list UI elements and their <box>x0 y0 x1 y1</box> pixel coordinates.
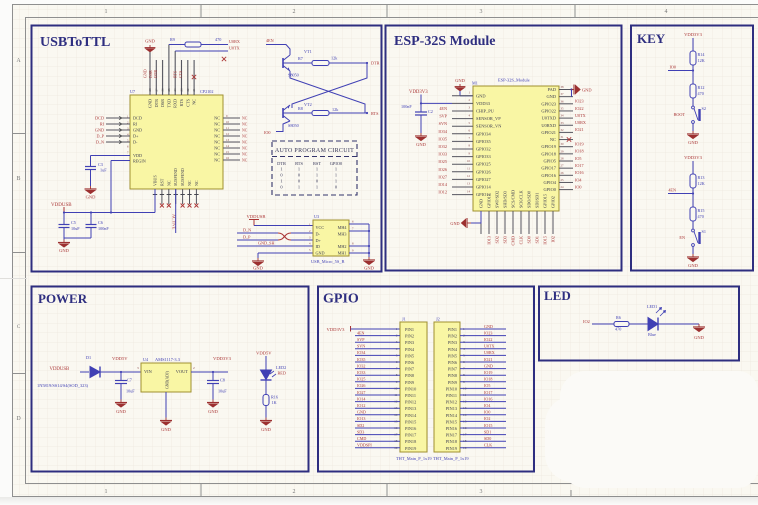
svg-text:1: 1 <box>280 167 282 172</box>
svg-text:IO0: IO0 <box>264 130 271 135</box>
svg-text:1: 1 <box>316 173 318 178</box>
svg-text:IO15: IO15 <box>543 236 548 245</box>
J2 right net labels <box>484 324 495 448</box>
wire R16 to gnd <box>265 406 267 418</box>
svg-text:U3: U3 <box>314 214 319 219</box>
block border LED <box>539 287 739 361</box>
svg-text:IO33: IO33 <box>357 370 365 375</box>
svg-text:RED: RED <box>278 371 286 376</box>
svg-text:VDD: VDD <box>133 153 142 158</box>
svg-text:NC: NC <box>242 141 248 145</box>
svg-text:GPIO2: GPIO2 <box>551 196 556 208</box>
svg-text:GND: GND <box>143 69 148 78</box>
svg-text:IO19: IO19 <box>575 142 584 147</box>
svg-text:IO26: IO26 <box>357 383 365 388</box>
no-connect X on CTS stub <box>192 75 196 79</box>
transistor VT1 <box>283 55 290 71</box>
wire C6 top <box>90 213 92 225</box>
svg-text:CLK: CLK <box>519 236 524 244</box>
svg-text:PIN4: PIN4 <box>448 347 458 352</box>
svg-text:GPIO18: GPIO18 <box>541 151 556 156</box>
svg-text:SCS/CMD: SCS/CMD <box>511 190 516 208</box>
svg-text:IO22: IO22 <box>575 106 584 111</box>
svg-text:GPIO0: GPIO0 <box>544 187 557 192</box>
svg-text:11: 11 <box>467 167 470 171</box>
svg-text:SDI/SD1: SDI/SD1 <box>535 193 540 208</box>
svg-text:1: 1 <box>335 178 337 183</box>
svg-text:IO35: IO35 <box>357 357 365 362</box>
wire vdd to R14 <box>692 38 694 51</box>
wire VDD to C3 <box>91 155 131 157</box>
CP2102 bottom pin stubs <box>155 189 196 204</box>
svg-text:12: 12 <box>463 400 467 404</box>
svg-text:470: 470 <box>215 37 221 42</box>
wire suspend down <box>175 189 177 233</box>
svg-text:THT_Main_P_1x19: THT_Main_P_1x19 <box>396 456 432 461</box>
svg-text:PIN16: PIN16 <box>446 426 458 431</box>
svg-text:C7: C7 <box>127 378 132 383</box>
connector J1 body <box>400 322 427 452</box>
svg-text:PIN18: PIN18 <box>446 439 457 444</box>
CP2102 top pin stubs <box>150 45 194 96</box>
svg-text:ESP-32S_Module: ESP-32S_Module <box>498 78 530 83</box>
svg-text:3: 3 <box>480 489 483 495</box>
svg-text:SENSOR_VP: SENSOR_VP <box>476 116 501 121</box>
svg-text:NC: NC <box>242 159 248 163</box>
svg-text:NC: NC <box>214 158 220 163</box>
svg-text:VDD3V3: VDD3V3 <box>409 90 428 95</box>
svg-text:PIN18: PIN18 <box>405 439 416 444</box>
svg-text:38: 38 <box>561 85 565 89</box>
svg-text:IO4: IO4 <box>575 177 582 182</box>
svg-text:DTR: DTR <box>154 99 159 108</box>
wire switch to ground S1 <box>692 246 694 254</box>
svg-text:1: 1 <box>105 489 108 495</box>
wire R13 to node <box>692 188 694 207</box>
svg-text:13: 13 <box>226 138 230 142</box>
svg-text:GND: GND <box>133 128 142 133</box>
wire R9 to U0RX <box>201 44 228 46</box>
bottom band tick 1 <box>200 484 202 496</box>
svg-text:RST: RST <box>313 161 321 166</box>
svg-text:11: 11 <box>463 393 467 397</box>
svg-text:IO0: IO0 <box>484 410 490 415</box>
wire gnd to pin1 <box>459 91 461 96</box>
svg-text:S8050: S8050 <box>288 123 299 128</box>
svg-text:D+: D+ <box>133 134 139 139</box>
wire REGIN to rail <box>111 160 130 162</box>
svg-text:14: 14 <box>226 144 230 148</box>
svg-text:IO14: IO14 <box>438 182 448 187</box>
svg-text:AMS1117-3.3: AMS1117-3.3 <box>155 357 181 362</box>
svg-text:RTS: RTS <box>179 98 184 106</box>
svg-text:D1: D1 <box>86 355 91 360</box>
svg-text:GPIO22: GPIO22 <box>541 108 556 113</box>
svg-text:10uF: 10uF <box>218 389 227 394</box>
svg-text:37: 37 <box>561 92 565 96</box>
svg-text:6: 6 <box>463 360 465 364</box>
svg-text:16: 16 <box>226 156 230 160</box>
white blob bottom right <box>545 371 758 488</box>
svg-text:D-: D- <box>133 140 138 145</box>
svg-text:M1: M1 <box>472 81 478 86</box>
svg-text:R8: R8 <box>298 106 303 111</box>
wire IO0 to VT2 emitter <box>276 121 290 132</box>
table rows <box>280 167 338 190</box>
svg-text:12K: 12K <box>698 58 705 63</box>
svg-text:25: 25 <box>561 178 565 182</box>
svg-text:1: 1 <box>396 327 398 331</box>
svg-text:PIN8: PIN8 <box>448 373 457 378</box>
svg-text:GND: GND <box>484 363 493 368</box>
svg-text:IO34: IO34 <box>357 350 365 355</box>
svg-text:SVN: SVN <box>357 344 365 349</box>
U3 right wires <box>349 223 369 225</box>
svg-text:DCD: DCD <box>133 116 142 121</box>
svg-text:30: 30 <box>561 142 565 146</box>
svg-text:10: 10 <box>463 386 467 390</box>
svg-text:A: A <box>16 58 21 64</box>
svg-text:24: 24 <box>561 185 565 189</box>
svg-text:11: 11 <box>394 393 398 397</box>
svg-text:PIN4: PIN4 <box>405 347 415 352</box>
svg-text:29: 29 <box>561 149 565 153</box>
switch S2 <box>692 106 700 123</box>
svg-text:PIN1: PIN1 <box>448 327 457 332</box>
U3 right junction dots <box>368 230 370 232</box>
wire LED2 to R16 <box>265 380 267 395</box>
svg-text:NC: NC <box>214 152 220 157</box>
svg-text:9: 9 <box>463 380 465 384</box>
svg-text:IO4: IO4 <box>484 403 490 408</box>
frame inner horizontal bottom <box>25 483 758 485</box>
svg-text:GPIO14: GPIO14 <box>476 185 491 190</box>
wire VDD5V to LED2 <box>265 356 267 370</box>
svg-text:1uF: 1uF <box>100 168 107 173</box>
svg-text:IO23: IO23 <box>575 99 584 104</box>
svg-text:RTS: RTS <box>295 161 303 166</box>
wire to C8 <box>212 372 214 380</box>
svg-text:KEY: KEY <box>637 31 666 46</box>
svg-text:GND: GND <box>357 410 366 415</box>
svg-text:VDDUSB: VDDUSB <box>50 367 70 372</box>
svg-text:32: 32 <box>561 128 565 132</box>
svg-text:C2: C2 <box>428 109 433 114</box>
svg-text:ID: ID <box>316 244 320 249</box>
svg-text:D-: D- <box>316 231 321 236</box>
svg-text:470: 470 <box>698 214 704 219</box>
svg-text:R14: R14 <box>698 52 706 57</box>
svg-text:GPIO4: GPIO4 <box>544 180 557 185</box>
capacitor C7 <box>115 380 127 382</box>
top band tick 1 <box>200 4 202 17</box>
svg-text:D: D <box>16 416 21 422</box>
J1 pin names <box>405 327 417 451</box>
svg-text:18: 18 <box>394 439 398 443</box>
svg-text:8: 8 <box>463 373 465 377</box>
svg-text:4: 4 <box>665 9 668 15</box>
svg-text:PIN17: PIN17 <box>405 433 417 438</box>
svg-text:1: 1 <box>335 173 337 178</box>
wire R14 to node <box>692 65 694 84</box>
svg-text:100nF: 100nF <box>401 104 412 109</box>
svg-text:PIN2: PIN2 <box>405 334 414 339</box>
svg-text:10: 10 <box>394 386 398 390</box>
svg-text:PIN5: PIN5 <box>448 353 457 358</box>
svg-text:S1: S1 <box>702 229 706 234</box>
svg-text:RTS: RTS <box>173 71 178 78</box>
svg-text:6: 6 <box>396 360 398 364</box>
svg-text:4EN: 4EN <box>439 106 447 111</box>
resistor R7 <box>312 61 329 66</box>
svg-text:SD1: SD1 <box>535 236 540 243</box>
svg-text:D_P: D_P <box>243 235 251 240</box>
svg-text:1: 1 <box>298 184 300 189</box>
svg-text:GND: GND <box>261 427 271 432</box>
svg-text:NC: NC <box>214 128 220 133</box>
svg-text:SD0: SD0 <box>484 436 491 441</box>
svg-text:PIN11: PIN11 <box>446 393 457 398</box>
resistor R15 <box>690 207 696 221</box>
svg-text:GND: GND <box>316 251 325 256</box>
svg-text:GND: GND <box>161 427 171 432</box>
left band tick 3 <box>12 373 25 375</box>
svg-text:IO34: IO34 <box>438 129 448 134</box>
wire to C7 <box>120 372 122 380</box>
page margin top <box>0 0 758 4</box>
svg-text:PIN19: PIN19 <box>446 446 457 451</box>
capacitor C6 <box>86 224 97 226</box>
svg-text:R15: R15 <box>698 208 705 213</box>
svg-text:16: 16 <box>394 426 398 430</box>
svg-text:RTS: RTS <box>371 111 379 116</box>
svg-text:GPIO35: GPIO35 <box>476 139 491 144</box>
J1 left net labels <box>357 330 372 447</box>
svg-text:VDDUSB: VDDUSB <box>51 203 72 208</box>
frame outer horizontal top <box>12 4 758 6</box>
svg-text:1N5819/SS14/S4(SOD_323): 1N5819/SS14/S4(SOD_323) <box>37 383 89 388</box>
svg-text:BOOT: BOOT <box>674 112 686 117</box>
wire regulator gnd <box>165 392 167 418</box>
svg-text:REGIN: REGIN <box>133 159 146 164</box>
svg-text:1K: 1K <box>272 400 277 405</box>
svg-text:IO23: IO23 <box>484 330 492 335</box>
svg-text:GPIO: GPIO <box>323 292 359 307</box>
frame outer horizontal bottom <box>12 496 758 498</box>
wire C6 bottom joins <box>90 228 92 239</box>
resistor R14 <box>690 51 696 65</box>
svg-text:VDD3V3: VDD3V3 <box>684 32 703 37</box>
differential pair twist <box>278 233 291 240</box>
svg-text:U0RX: U0RX <box>484 350 495 355</box>
U3 right pin names <box>338 225 348 256</box>
svg-text:IO18: IO18 <box>575 149 584 154</box>
svg-text:IO26: IO26 <box>438 167 447 172</box>
svg-text:GND: GND <box>582 88 592 93</box>
wire VBUS down to rail <box>154 189 156 213</box>
svg-text:PIN13: PIN13 <box>446 406 457 411</box>
wire 4EN to VT1 collector <box>266 45 290 56</box>
svg-text:IO0: IO0 <box>669 65 676 70</box>
CP2102 right pin numbers and NC labels <box>226 114 248 163</box>
power rail wire <box>63 207 65 213</box>
capacitor C8 <box>207 380 219 382</box>
svg-text:GPIO34: GPIO34 <box>476 131 491 136</box>
svg-text:GPIO26: GPIO26 <box>476 169 491 174</box>
wire IO2 to R6 <box>592 323 614 325</box>
svg-text:5: 5 <box>396 353 398 357</box>
LED2 diode <box>261 370 277 380</box>
svg-text:D_N: D_N <box>96 140 104 145</box>
svg-text:PIN9: PIN9 <box>405 380 414 385</box>
CP2102 top pin names <box>148 98 197 108</box>
svg-text:14: 14 <box>394 413 398 417</box>
frame outer vertical left <box>12 4 14 497</box>
bottom band tick 2 <box>386 484 388 496</box>
pin direction marks bottom pins <box>153 194 199 196</box>
svg-text:PIN10: PIN10 <box>446 386 457 391</box>
svg-text:IO25: IO25 <box>357 377 365 382</box>
svg-text:U0TX: U0TX <box>484 344 495 349</box>
svg-text:SD2: SD2 <box>495 236 500 243</box>
svg-text:28: 28 <box>148 88 152 92</box>
svg-text:IO2: IO2 <box>583 319 590 324</box>
svg-text:IO18: IO18 <box>484 377 492 382</box>
svg-text:IO21: IO21 <box>484 357 492 362</box>
svg-text:1: 1 <box>463 327 465 331</box>
svg-text:VIN: VIN <box>144 369 153 374</box>
svg-text:GPIO33: GPIO33 <box>476 154 491 159</box>
J2 pin names <box>446 327 458 451</box>
svg-text:27: 27 <box>154 88 158 92</box>
svg-text:PIN7: PIN7 <box>405 367 415 372</box>
wire VT1 base to R7 <box>283 62 312 64</box>
svg-text:R12: R12 <box>698 85 705 90</box>
svg-text:MH3: MH3 <box>338 231 347 236</box>
svg-text:19: 19 <box>394 446 398 450</box>
svg-text:J1: J1 <box>402 317 406 322</box>
svg-text:RXD: RXD <box>173 99 178 108</box>
svg-text:1: 1 <box>280 178 282 183</box>
svg-text:470: 470 <box>698 91 704 96</box>
svg-text:NC: NC <box>214 140 220 145</box>
ground below C7 <box>115 400 127 408</box>
svg-text:SD3: SD3 <box>503 236 508 243</box>
CP2102 left pin numbers <box>127 115 129 155</box>
block border GPIO <box>318 287 534 472</box>
wire GND stub <box>149 52 151 60</box>
svg-text:PIN14: PIN14 <box>405 413 417 418</box>
svg-text:NC: NC <box>214 116 220 121</box>
svg-text:R13: R13 <box>698 175 705 180</box>
wire RXD to U0TX <box>175 50 228 52</box>
svg-text:PIN8: PIN8 <box>405 373 414 378</box>
auto program circuit table box <box>272 141 357 195</box>
svg-text:SD0: SD0 <box>527 236 532 243</box>
svg-text:SD2: SD2 <box>357 423 364 428</box>
svg-text:3: 3 <box>463 340 465 344</box>
wire C5 to gnd <box>63 228 65 240</box>
svg-text:GPIO25: GPIO25 <box>476 162 491 167</box>
svg-text:U0TXD: U0TXD <box>542 116 556 121</box>
svg-text:GND: GND <box>450 221 459 226</box>
svg-text:PIN15: PIN15 <box>446 419 457 424</box>
switch S1 <box>692 229 700 246</box>
ground left of ESP bottom <box>462 218 472 228</box>
svg-text:NC: NC <box>192 99 197 105</box>
wire VDDUSB to D1 <box>80 371 89 373</box>
wire R8 to RTS <box>329 112 367 114</box>
svg-text:IO32: IO32 <box>438 144 447 149</box>
svg-text:USBToTTL: USBToTTL <box>40 35 110 50</box>
svg-text:SVN: SVN <box>439 121 447 126</box>
ground below C5 <box>58 240 70 248</box>
junction VDD3V3 <box>212 371 214 373</box>
svg-text:12: 12 <box>394 400 398 404</box>
wire VDD3V3 to J1 pin1 <box>351 328 401 330</box>
svg-text:R9: R9 <box>170 37 175 42</box>
svg-text:IO0: IO0 <box>575 184 582 189</box>
svg-text:15: 15 <box>226 150 230 154</box>
table divider <box>272 156 357 158</box>
diode D1 <box>90 367 100 378</box>
wire C2 to ground <box>420 115 422 133</box>
svg-text:33: 33 <box>561 121 565 125</box>
capacitor C2 <box>415 111 427 113</box>
wire D1 to regulator <box>100 371 141 373</box>
svg-text:3: 3 <box>396 340 398 344</box>
svg-text:IO2: IO2 <box>484 416 490 421</box>
svg-text:GND: GND <box>59 248 69 253</box>
svg-text:4EN: 4EN <box>266 38 274 43</box>
svg-text:NC: NC <box>194 180 199 186</box>
svg-text:4: 4 <box>463 347 465 351</box>
wire VDD3V3 to VDD33 pin <box>421 95 452 104</box>
svg-text:VBUS: VBUS <box>153 175 158 186</box>
svg-text:PIN5: PIN5 <box>405 353 414 358</box>
svg-text:PIN6: PIN6 <box>448 360 458 365</box>
svg-text:VCC: VCC <box>316 225 325 230</box>
ground key S2 <box>687 131 699 139</box>
svg-text:SENSOR_VN: SENSOR_VN <box>476 124 502 129</box>
svg-text:VDD33: VDD33 <box>476 101 491 106</box>
svg-text:LED2: LED2 <box>276 365 286 370</box>
svg-text:GPIO13: GPIO13 <box>487 194 492 208</box>
svg-text:IO27: IO27 <box>438 174 447 179</box>
svg-text:SUSPEND: SUSPEND <box>173 168 178 186</box>
svg-text:VDD3V3: VDD3V3 <box>684 155 703 160</box>
wire PAD GND to ground right <box>571 90 573 97</box>
svg-text:PIN13: PIN13 <box>405 406 416 411</box>
svg-text:2: 2 <box>293 9 296 15</box>
svg-text:VT1: VT1 <box>304 49 312 54</box>
ground U3 left <box>257 253 259 258</box>
svg-text:SD1: SD1 <box>484 429 491 434</box>
svg-text:PIN6: PIN6 <box>405 360 415 365</box>
svg-text:13: 13 <box>467 182 471 186</box>
ground below C3 <box>85 186 97 194</box>
svg-text:GND: GND <box>208 409 218 414</box>
svg-text:PIN14: PIN14 <box>446 413 458 418</box>
svg-text:GND: GND <box>688 263 698 268</box>
node wire IO0 <box>668 70 693 72</box>
left band tick 2 <box>12 252 25 254</box>
svg-text:GND: GND <box>694 335 704 340</box>
svg-text:CLK: CLK <box>484 443 492 448</box>
svg-text:10uF: 10uF <box>126 389 135 394</box>
svg-text:9: 9 <box>396 380 398 384</box>
svg-text:1: 1 <box>316 184 318 189</box>
